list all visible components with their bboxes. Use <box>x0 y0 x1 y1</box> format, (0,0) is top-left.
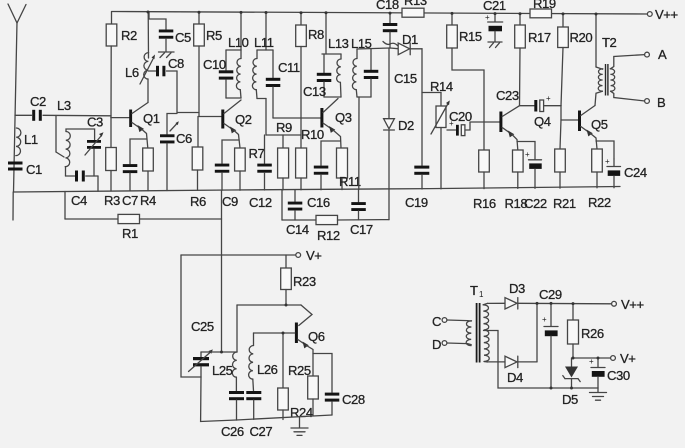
resistor R10 <box>296 127 324 190</box>
svg-text:C19: C19 <box>405 195 428 210</box>
variable resistor R14 <box>422 79 453 189</box>
inductor L6 (variable) <box>125 12 155 84</box>
svg-text:L1: L1 <box>24 132 38 147</box>
svg-text:C23: C23 <box>496 88 519 103</box>
capacitor C23 (electrolytic coupling) <box>496 88 561 112</box>
capacitor C17 (below rail) <box>350 190 373 238</box>
svg-text:T: T <box>470 283 478 298</box>
transistor Q3 <box>320 99 351 149</box>
svg-text:C30: C30 <box>607 368 630 383</box>
capacitor C25 (variable, tuning) <box>189 319 214 377</box>
resistor R13 (on rail) <box>402 0 427 17</box>
svg-text:C10: C10 <box>203 57 226 72</box>
svg-text:R25: R25 <box>288 363 311 378</box>
svg-text:C17: C17 <box>350 222 373 237</box>
capacitor C22 (electrolytic) <box>517 142 547 212</box>
svg-text:D2: D2 <box>398 118 414 133</box>
resistor R7 <box>235 146 265 190</box>
svg-text:R8: R8 <box>308 27 324 42</box>
svg-text:C29: C29 <box>539 287 562 302</box>
svg-text:L26: L26 <box>257 362 278 377</box>
terminal V++ (PSU) <box>612 297 644 312</box>
capacitor C7 <box>122 139 147 208</box>
resistor R22 <box>588 149 611 210</box>
capacitor C9 <box>215 140 239 209</box>
svg-text:C26: C26 <box>221 424 244 439</box>
wire: L15 tank bottom to rail <box>358 97 360 190</box>
svg-text:+: + <box>485 13 490 22</box>
svg-text:Q6: Q6 <box>308 329 325 344</box>
svg-text:R6: R6 <box>190 194 206 209</box>
top V++ rail <box>112 12 648 15</box>
resistor R12 (below rail) <box>282 189 389 243</box>
antenna <box>8 4 26 192</box>
inductor L3 coil <box>65 129 94 176</box>
capacitor C16 <box>307 141 341 210</box>
svg-text:C27: C27 <box>250 424 273 439</box>
zener diode D5 <box>562 358 580 407</box>
diode D3 <box>488 281 526 309</box>
svg-text:A: A <box>658 47 667 62</box>
svg-text:R20: R20 <box>570 30 593 45</box>
resistor R25 <box>288 363 318 416</box>
resistor R21 <box>553 120 576 211</box>
capacitor C12 <box>249 135 272 210</box>
svg-text:L13: L13 <box>328 36 349 51</box>
capacitor C24 (electrolytic) <box>596 141 647 188</box>
resistor R23 <box>281 255 316 305</box>
svg-text:C25: C25 <box>191 319 214 334</box>
ground (antenna) <box>7 192 21 226</box>
inductor L1 <box>16 128 38 156</box>
svg-text:D4: D4 <box>507 370 523 385</box>
wire: V+ (PSU) <box>573 357 611 359</box>
wire: V++ (PSU) <box>518 302 612 305</box>
svg-text:R9: R9 <box>276 120 292 135</box>
svg-text:R23: R23 <box>293 274 316 289</box>
inductor L10 <box>226 35 249 98</box>
capacitor C14 (below rail) <box>286 190 309 237</box>
capacitor C27 <box>246 391 272 439</box>
diode D2 <box>384 48 414 189</box>
svg-text:B: B <box>657 95 666 110</box>
terminal V+ (oscillator) <box>181 248 321 263</box>
svg-text:Q1: Q1 <box>143 111 160 126</box>
resistor R16 <box>473 122 496 211</box>
wire: Q6 base <box>254 332 295 334</box>
svg-text:+: + <box>589 357 594 366</box>
capacitor C2 <box>15 94 46 121</box>
svg-text:R2: R2 <box>121 28 137 43</box>
resistor R24 <box>278 333 313 420</box>
svg-text:R10: R10 <box>301 127 324 142</box>
ground (C5) <box>159 52 175 58</box>
wire: L11 bottom to R9/R10 <box>266 99 301 136</box>
svg-text:L3: L3 <box>57 98 71 113</box>
wire: C25 bottom to osc ground <box>201 377 237 422</box>
wire: oscillator feedback <box>237 305 312 326</box>
svg-text:D: D <box>432 337 441 352</box>
transistor Q6 <box>295 323 325 377</box>
wire: oscillator bottom <box>237 415 333 420</box>
capacitor C28 <box>313 354 365 416</box>
svg-text:C8: C8 <box>168 56 184 71</box>
ground (oscillator) <box>291 418 308 436</box>
svg-text:C24: C24 <box>624 165 647 180</box>
IF tank L11/C11: rail drop <box>257 12 273 50</box>
transistor Q2 <box>221 100 251 148</box>
svg-text:R7: R7 <box>249 146 265 161</box>
terminal D (PSU input) <box>432 337 468 352</box>
terminal V+ (PSU) <box>611 351 636 366</box>
capacitor C1 <box>8 162 42 178</box>
svg-text:R4: R4 <box>140 193 156 208</box>
wire: V+ left drop <box>181 255 201 377</box>
junction dots (PSU & misc) <box>220 302 600 390</box>
svg-text:R5: R5 <box>206 28 222 43</box>
svg-text:V++: V++ <box>655 7 678 22</box>
svg-text:C5: C5 <box>175 30 191 45</box>
svg-text:D1: D1 <box>402 32 418 47</box>
svg-text:1: 1 <box>479 290 484 299</box>
inductor L25 <box>212 305 237 391</box>
resistor R1 <box>65 192 222 242</box>
svg-text:C15: C15 <box>394 71 417 86</box>
wire: Q5 base node <box>561 106 578 120</box>
transistor Q5 <box>578 106 608 150</box>
svg-text:R24: R24 <box>290 405 313 420</box>
svg-text:C14: C14 <box>286 222 309 237</box>
svg-text:R17: R17 <box>528 30 551 45</box>
svg-text:L11: L11 <box>254 35 274 50</box>
svg-text:D5: D5 <box>562 392 578 407</box>
svg-text:R26: R26 <box>581 326 604 341</box>
capacitor C26 <box>221 391 244 439</box>
svg-text:C3: C3 <box>87 115 103 130</box>
svg-text:L6: L6 <box>125 65 139 80</box>
capacitor C15 <box>364 49 417 98</box>
capacitor C21 (electrolytic to ground) <box>483 0 506 42</box>
svg-text:C4: C4 <box>71 193 87 208</box>
node L3 <box>56 98 71 157</box>
wire: C8 out to Q2 base node <box>177 71 199 113</box>
svg-text:C28: C28 <box>342 392 365 407</box>
resistor R11 <box>337 148 361 190</box>
svg-text:R21: R21 <box>553 196 576 211</box>
resistor R17 <box>515 14 551 106</box>
svg-text:Q4: Q4 <box>534 114 551 129</box>
capacitor C20 (electrolytic) <box>447 109 484 136</box>
svg-text:C18: C18 <box>376 0 399 12</box>
svg-text:C9: C9 <box>222 194 238 209</box>
terminal C (PSU input) <box>432 314 468 329</box>
capacitor C8 <box>148 56 184 76</box>
svg-text:V+: V+ <box>306 248 321 263</box>
svg-text:C13: C13 <box>303 84 326 99</box>
inductor L11 <box>252 35 273 99</box>
svg-text:+: + <box>546 94 551 103</box>
resistor R15 <box>447 13 484 122</box>
inductor L26 <box>249 333 278 391</box>
junction dots (top rail) <box>147 11 598 16</box>
terminal B <box>611 91 666 110</box>
resistor R20 <box>558 14 593 106</box>
bottom ground rail <box>14 187 621 193</box>
ground (PSU) <box>590 388 607 400</box>
svg-text:R19: R19 <box>533 0 556 11</box>
svg-text:C1: C1 <box>26 162 42 177</box>
svg-text:+: + <box>525 150 530 159</box>
svg-text:+: + <box>605 157 610 166</box>
svg-text:R1: R1 <box>122 226 138 241</box>
svg-text:V+: V+ <box>620 351 635 366</box>
svg-text:Q3: Q3 <box>335 110 352 125</box>
IF tank L10/C10: rail drop <box>226 12 241 50</box>
resistor R26 <box>568 304 604 358</box>
resistor R4 <box>140 148 156 208</box>
wire: Q2 base <box>199 116 221 118</box>
wire: Q3 base <box>301 117 321 119</box>
capacitor C18 <box>376 0 399 48</box>
svg-text:R13: R13 <box>404 0 427 8</box>
resistor R5 <box>194 12 222 117</box>
svg-text:R14: R14 <box>430 79 453 94</box>
svg-text:L10: L10 <box>228 35 249 50</box>
svg-text:C: C <box>432 314 441 329</box>
wire: C9 column down to oscillator <box>221 190 223 352</box>
svg-text:C7: C7 <box>122 193 138 208</box>
svg-text:R22: R22 <box>588 195 611 210</box>
transformer T2 <box>595 14 617 106</box>
svg-text:R16: R16 <box>473 196 496 211</box>
wire: T1 center tap return <box>484 331 599 389</box>
IF tank L13/C13: rail drop <box>322 13 341 54</box>
capacitor C30 (electrolytic) <box>589 357 630 388</box>
diode D1 <box>390 32 422 55</box>
resistor R19 (on rail) <box>530 0 556 18</box>
svg-text:Q5: Q5 <box>591 117 608 132</box>
capacitor C29 (electrolytic) <box>539 287 562 388</box>
svg-text:T2: T2 <box>602 35 617 50</box>
resistor R9 <box>276 120 292 190</box>
capacitor C6 (trimmer) <box>160 114 192 191</box>
svg-text:D3: D3 <box>509 281 525 296</box>
resistor R18 <box>505 150 528 211</box>
capacitor C13 <box>303 54 331 99</box>
inductor L13 <box>324 36 349 97</box>
resistor R2 <box>106 12 137 118</box>
terminal V++ (top right) <box>647 7 677 22</box>
svg-text:C22: C22 <box>524 196 547 211</box>
diode D4 <box>488 356 538 385</box>
capacitor C10 <box>203 50 233 98</box>
wire: D4 output riser <box>536 303 538 362</box>
ground (C21) <box>488 42 502 48</box>
svg-text:R15: R15 <box>459 29 482 44</box>
svg-text:C16: C16 <box>307 195 330 210</box>
resistor R8 <box>296 13 324 148</box>
inductor L15 <box>351 36 372 97</box>
svg-text:+: + <box>542 315 547 324</box>
svg-text:C2: C2 <box>30 94 46 109</box>
svg-text:L15: L15 <box>351 36 372 51</box>
svg-text:L25: L25 <box>212 363 233 378</box>
svg-text:R3: R3 <box>104 193 120 208</box>
capacitor C19 <box>405 49 429 210</box>
svg-text:C20: C20 <box>449 109 472 124</box>
svg-text:C21: C21 <box>483 0 506 13</box>
wire: C3/C4 node to rail <box>97 176 99 191</box>
transformer T1 <box>466 283 489 363</box>
variable capacitor C3 <box>85 115 104 177</box>
IF tank L15/C15 top wire <box>357 48 390 49</box>
svg-text:R12: R12 <box>317 228 340 243</box>
svg-text:Q2: Q2 <box>235 112 252 127</box>
wire: rail drop to L25 <box>201 351 237 353</box>
terminal A <box>610 47 667 69</box>
capacitor C11 <box>266 50 301 118</box>
svg-text:V++: V++ <box>621 297 644 312</box>
resistor R6 <box>190 117 206 210</box>
svg-text:C12: C12 <box>249 195 272 210</box>
svg-text:R11: R11 <box>339 174 361 189</box>
svg-text:C6: C6 <box>176 131 192 146</box>
svg-text:C11: C11 <box>278 60 300 75</box>
wire: C2 to Q1 base <box>43 114 111 117</box>
transistor Q1 <box>129 79 160 148</box>
capacitor C5 <box>149 12 191 52</box>
resistor R3 <box>104 117 120 208</box>
capacitor C4 <box>66 171 99 209</box>
transistor Q4 <box>484 106 551 150</box>
